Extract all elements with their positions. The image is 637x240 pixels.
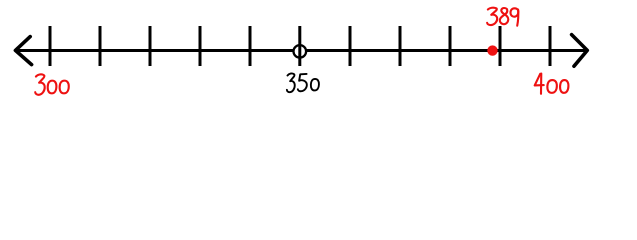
tick 320 [149, 26, 152, 66]
left arrowhead [15, 37, 31, 65]
open circle at 350 [294, 45, 307, 58]
label 300 (red) [35, 74, 69, 94]
tick 330 [199, 26, 202, 66]
tick 360 [349, 26, 352, 66]
number line axis [16, 49, 588, 52]
label 350 (black) [287, 73, 319, 92]
tick 400 [549, 26, 552, 66]
tick 390 [499, 26, 502, 66]
tick 300 [49, 26, 52, 66]
tick 370 [399, 26, 402, 66]
tick 340 [249, 26, 252, 66]
right arrowhead [572, 35, 588, 67]
tick 380 [449, 26, 452, 66]
label 389 (red, above point) [487, 8, 518, 26]
red point at 389 [487, 45, 497, 55]
tick 350 [298, 26, 301, 66]
tick 310 [99, 26, 102, 66]
label 400 (red) [535, 74, 569, 94]
